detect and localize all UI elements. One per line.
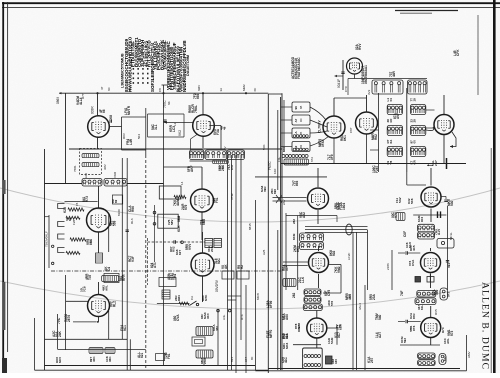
svg-text:9C: 9C (299, 118, 303, 122)
svg-text:3K0: 3K0 (206, 313, 210, 319)
svg-text:8M0: 8M0 (89, 239, 93, 245)
svg-text:14: 14 (180, 181, 184, 185)
svg-text:540: 540 (378, 314, 382, 320)
svg-text:CTC: CTC (344, 85, 348, 92)
svg-text:831: 831 (230, 357, 234, 362)
svg-text:VM2: VM2 (337, 266, 341, 273)
svg-text:6M5: 6M5 (202, 219, 206, 225)
svg-text:4M9: 4M9 (348, 294, 352, 300)
svg-text:RL2: RL2 (113, 301, 117, 307)
svg-text:3V2: 3V2 (367, 89, 371, 95)
svg-text:693: 693 (196, 93, 200, 99)
svg-text:3L1: 3L1 (154, 124, 158, 130)
svg-text:1604: 1604 (342, 203, 346, 210)
svg-text:01: 01 (170, 272, 174, 276)
svg-text:23A: 23A (372, 293, 376, 300)
svg-text:7283V0KLF: 7283V0KLF (45, 231, 49, 247)
svg-text:AK: AK (224, 264, 228, 269)
svg-text:V7V: V7V (394, 211, 398, 218)
svg-text:569: 569 (112, 220, 116, 226)
svg-text:KLK: KLK (177, 225, 181, 232)
svg-text:44R: 44R (392, 70, 396, 77)
svg-text:F287: F287 (375, 166, 379, 173)
svg-text:5K6: 5K6 (410, 198, 414, 204)
svg-text:24K: 24K (58, 330, 62, 337)
svg-text:C0F: C0F (403, 231, 407, 237)
svg-text:160: 160 (334, 359, 338, 364)
svg-text:8K1: 8K1 (343, 135, 347, 141)
svg-text:FM7C: FM7C (268, 161, 272, 170)
svg-text:R2: R2 (240, 265, 244, 269)
svg-text:AMV: AMV (467, 351, 471, 358)
svg-text:41C: 41C (284, 356, 288, 363)
svg-text:2AA: 2AA (203, 357, 207, 364)
svg-text:CA: CA (190, 296, 194, 300)
svg-text:257: 257 (370, 357, 374, 363)
svg-text:8815: 8815 (248, 223, 252, 230)
svg-text:R73: R73 (441, 327, 445, 333)
svg-text:K28: K28 (63, 207, 67, 213)
svg-text:62M: 62M (338, 324, 342, 330)
svg-text:F51: F51 (215, 197, 219, 203)
svg-text:AKF: AKF (190, 165, 194, 172)
svg-text:MM2: MM2 (242, 84, 246, 91)
svg-text:C4: C4 (107, 267, 111, 271)
svg-text:AVL: AVL (446, 338, 450, 344)
svg-text:74F: 74F (400, 290, 404, 296)
svg-text:C8: C8 (158, 88, 162, 92)
svg-text:8M4: 8M4 (177, 295, 181, 301)
svg-text:LC2F: LC2F (347, 252, 351, 260)
svg-text:L02: L02 (84, 173, 88, 178)
svg-text:9041F: 9041F (337, 79, 341, 88)
svg-text:RFR: RFR (122, 274, 126, 281)
svg-text:M7C: M7C (204, 294, 208, 301)
svg-text:RL6: RL6 (130, 218, 134, 224)
svg-text:R73: R73 (85, 196, 89, 202)
svg-text:VK2: VK2 (178, 130, 182, 136)
svg-text:C8T: C8T (349, 127, 353, 133)
svg-text:08M: 08M (177, 215, 181, 222)
svg-text:7R8L: 7R8L (194, 105, 198, 113)
svg-text:530: 530 (450, 200, 454, 206)
svg-text:CL7VKV: CL7VKV (318, 120, 322, 133)
svg-text:M2: M2 (177, 87, 181, 91)
svg-text:AVF: AVF (396, 113, 400, 119)
svg-text:19: 19 (412, 98, 416, 102)
svg-text:6KM: 6KM (292, 233, 296, 240)
svg-text:6C: 6C (107, 87, 111, 91)
svg-text:399: 399 (435, 289, 439, 295)
svg-text:3A: 3A (219, 88, 223, 92)
svg-text:T0T: T0T (88, 274, 92, 280)
svg-text:58V: 58V (170, 220, 174, 225)
svg-text:R96: R96 (131, 206, 135, 212)
svg-text:66: 66 (102, 109, 106, 113)
svg-text:4T: 4T (100, 86, 104, 90)
svg-text:8100: 8100 (117, 209, 121, 216)
svg-text:F4L: F4L (277, 156, 281, 162)
svg-text:AVL: AVL (105, 285, 109, 291)
svg-text:0869: 0869 (56, 97, 60, 104)
svg-text:973: 973 (450, 330, 454, 336)
svg-text:09V2RV: 09V2RV (215, 279, 219, 292)
svg-text:09R: 09R (263, 186, 267, 192)
svg-text:3732: 3732 (230, 193, 234, 200)
svg-text:A60: A60 (285, 314, 289, 320)
svg-text:0FAF: 0FAF (321, 139, 325, 147)
svg-text:9F2: 9F2 (420, 216, 424, 222)
svg-text:15: 15 (75, 202, 79, 206)
svg-text:8F: 8F (250, 356, 254, 360)
svg-text:87R: 87R (412, 313, 416, 319)
svg-text:62T: 62T (178, 250, 182, 255)
svg-text:92C: 92C (217, 257, 221, 264)
svg-text:4V: 4V (223, 146, 227, 150)
svg-text:69: 69 (114, 199, 118, 203)
svg-text:094: 094 (447, 263, 451, 268)
svg-text:696: 696 (273, 189, 277, 194)
svg-text:592: 592 (403, 338, 407, 343)
svg-text:9F9: 9F9 (297, 326, 301, 332)
svg-text:2C8: 2C8 (210, 246, 214, 252)
svg-text:2876: 2876 (67, 315, 71, 322)
svg-text:CFK: CFK (456, 49, 460, 56)
svg-text:88: 88 (299, 105, 303, 109)
svg-text:61C: 61C (443, 355, 447, 361)
svg-text:5AM: 5AM (330, 337, 334, 344)
svg-text:4AM: 4AM (176, 199, 180, 206)
svg-text:2K7: 2K7 (434, 160, 438, 166)
svg-text:0C7: 0C7 (337, 332, 341, 338)
svg-text:R62: R62 (374, 134, 378, 140)
svg-text:A7: A7 (294, 118, 298, 122)
svg-text:99: 99 (294, 106, 298, 110)
svg-text:MFF0: MFF0 (269, 329, 273, 338)
svg-text:979: 979 (184, 204, 188, 210)
svg-text:57F: 57F (285, 265, 289, 271)
svg-text:3RV: 3RV (103, 164, 107, 170)
svg-text:A25: A25 (262, 249, 266, 255)
svg-text:0F9: 0F9 (330, 154, 334, 160)
svg-text:F81: F81 (167, 353, 171, 359)
svg-text:36C: 36C (108, 356, 112, 362)
svg-text:L4R: L4R (129, 138, 133, 145)
svg-text:2M0: 2M0 (221, 165, 225, 171)
svg-text:0C: 0C (128, 88, 132, 92)
svg-text:5F3: 5F3 (447, 291, 451, 297)
svg-text:F9AT94EA92C: F9AT94EA92C (297, 57, 301, 79)
svg-text:7681: 7681 (73, 165, 77, 172)
svg-text:RF: RF (389, 118, 393, 122)
svg-text:2186: 2186 (386, 263, 390, 270)
svg-text:LLK: LLK (301, 276, 305, 283)
svg-text:48: 48 (222, 126, 226, 130)
svg-text:5AV: 5AV (398, 197, 402, 203)
svg-text:CVA: CVA (411, 259, 415, 266)
svg-text:RTC: RTC (240, 313, 244, 320)
svg-text:6K: 6K (167, 101, 171, 105)
svg-text:CV5: CV5 (327, 290, 331, 296)
svg-text:5T6: 5T6 (330, 300, 334, 306)
svg-text:621: 621 (140, 352, 144, 358)
svg-text:2AV: 2AV (282, 200, 286, 205)
svg-text:003R: 003R (91, 106, 95, 114)
svg-text:3AL4: 3AL4 (358, 303, 362, 310)
svg-text:82: 82 (68, 217, 72, 221)
svg-text:R0V: R0V (122, 133, 126, 139)
svg-text:MVTR: MVTR (127, 105, 131, 115)
svg-text:902: 902 (332, 250, 336, 256)
svg-text:MK4: MK4 (285, 342, 289, 349)
svg-text:AT1: AT1 (153, 262, 157, 268)
svg-text:29: 29 (412, 119, 416, 123)
svg-text:947: 947 (244, 357, 248, 362)
svg-text:19A: 19A (337, 202, 341, 209)
svg-text:6MV: 6MV (197, 85, 201, 91)
svg-text:CVA: CVA (176, 314, 180, 321)
svg-text:1KF: 1KF (273, 168, 277, 174)
svg-text:RVV: RVV (358, 43, 362, 50)
svg-text:84F8: 84F8 (256, 293, 260, 300)
svg-text:DAUETD9M: DAUETD9M (186, 55, 190, 76)
svg-text:V3F: V3F (131, 256, 135, 262)
svg-text:MF0: MF0 (58, 357, 62, 363)
svg-text:K8: K8 (109, 115, 113, 119)
svg-text:VVV: VVV (188, 243, 192, 250)
svg-text:050T984AA1: 050T984AA1 (364, 65, 368, 84)
svg-text:A4L: A4L (222, 314, 226, 320)
svg-text:504: 504 (137, 134, 141, 139)
svg-text:6C: 6C (253, 88, 257, 92)
svg-text:A2T: A2T (378, 332, 382, 338)
svg-text:61L: 61L (420, 305, 424, 310)
svg-text:282: 282 (292, 292, 296, 298)
svg-text:32A: 32A (285, 332, 289, 339)
svg-text:8F99: 8F99 (269, 301, 273, 308)
svg-text:00: 00 (412, 140, 416, 144)
svg-text:R7T: R7T (81, 93, 85, 99)
svg-text:40C: 40C (92, 356, 96, 362)
svg-text:F28: F28 (72, 219, 76, 225)
svg-text:4C5: 4C5 (412, 245, 416, 251)
svg-text:T7F: T7F (409, 326, 413, 332)
svg-text:A32: A32 (302, 212, 306, 218)
svg-text:7C8: 7C8 (82, 286, 86, 292)
svg-text:9C1: 9C1 (123, 325, 127, 331)
svg-text:893: 893 (295, 180, 299, 186)
svg-text:A1V: A1V (437, 228, 441, 235)
svg-text:282: 282 (292, 219, 296, 224)
svg-text:8K1: 8K1 (296, 246, 300, 252)
svg-text:ALLEN B. DUMC: ALLEN B. DUMC (479, 282, 490, 370)
svg-text:672: 672 (310, 157, 314, 162)
svg-text:VKR: VKR (113, 171, 117, 178)
svg-text:RV5: RV5 (434, 309, 438, 315)
svg-text:04: 04 (389, 98, 393, 102)
